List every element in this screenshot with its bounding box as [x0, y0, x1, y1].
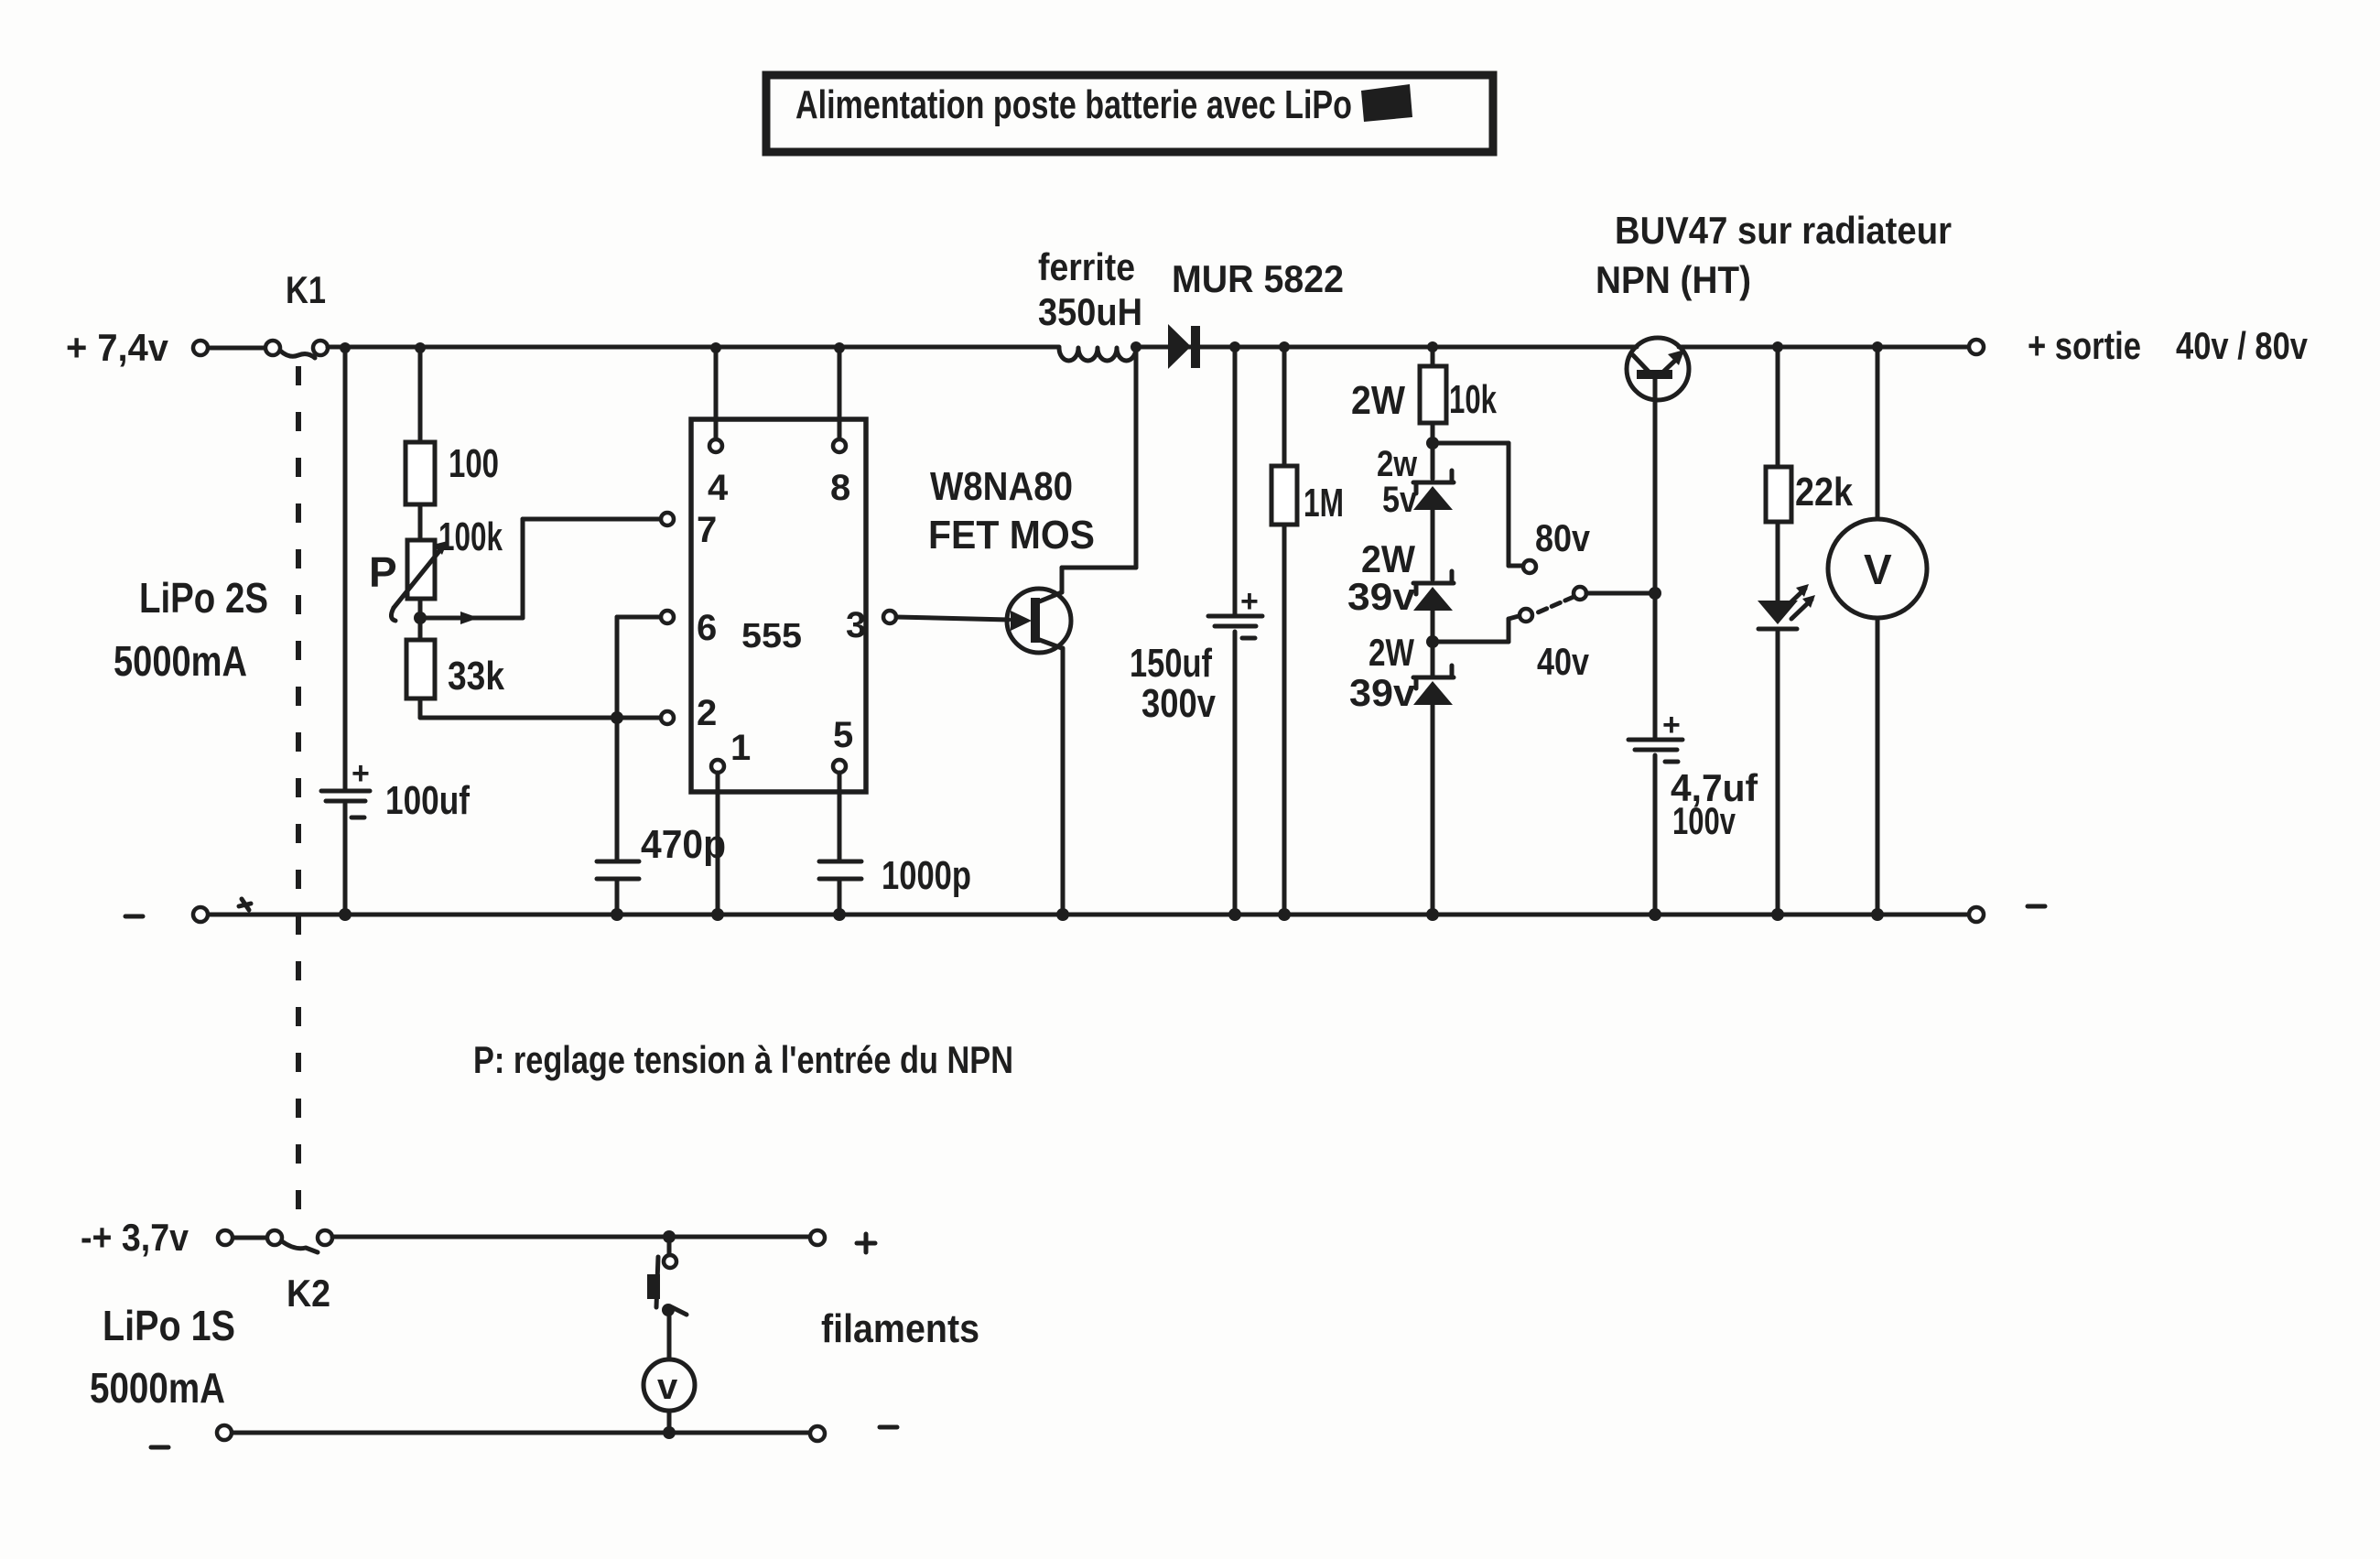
wire [418, 504, 423, 540]
wire source to ground rail [1056, 648, 1069, 921]
svg-text:K1: K1 [286, 268, 326, 311]
svg-text:BUV47 sur radiateur: BUV47 sur radiateur [1615, 209, 1952, 252]
pin 2 [661, 693, 717, 733]
capacitor 1000p [819, 853, 971, 921]
svg-text:40v: 40v [1537, 640, 1590, 683]
pin 5 [833, 715, 853, 861]
svg-text:Alimentation poste batterie av: Alimentation poste batterie avec LiPo [795, 82, 1352, 127]
svg-text:NPN (HT): NPN (HT) [1596, 258, 1751, 301]
wire pot to 33k with wiper tap [414, 519, 660, 640]
capacitor 100uf [321, 756, 470, 823]
wire filament - line [217, 1425, 825, 1441]
resistor 100 [406, 342, 499, 504]
wire [233, 1236, 267, 1240]
svg-text:40v / 80v: 40v / 80v [2176, 324, 2309, 367]
svg-text:39v: 39v [1349, 671, 1416, 714]
svg-text:K2: K2 [287, 1272, 330, 1315]
svg-text:22k: 22k [1795, 470, 1853, 514]
terminal +7.4v [193, 341, 208, 355]
svg-text:100: 100 [449, 441, 499, 486]
wire left vertical rail [340, 342, 351, 915]
capacitor 4,7uf 100v [1628, 593, 1758, 921]
svg-text:1M: 1M [1304, 481, 1344, 525]
svg-text:LiPo 2S: LiPo 2S [139, 574, 268, 622]
svg-text:470p: 470p [641, 822, 726, 867]
diode Z2 zener 39v 2W [1347, 537, 1454, 677]
diode Z3 zener 39v 2W [1349, 631, 1454, 921]
svg-text:P: reglage tension à l'entré: P: reglage tension à l'entrée du NPN [473, 1038, 1013, 1081]
svg-text:10k: 10k [1449, 377, 1497, 422]
transistor Q2 BUV47 NPN [1596, 209, 1952, 593]
svg-text:filaments: filaments [821, 1306, 979, 1351]
svg-text:MUR 5822: MUR 5822 [1172, 257, 1344, 300]
svg-text:1000p: 1000p [882, 853, 971, 898]
svg-text:-+ 3,7v: -+ 3,7v [81, 1216, 189, 1259]
svg-text:100k: 100k [438, 514, 503, 559]
wire pin3 to gate [896, 617, 1009, 620]
switch fuse on filament line [647, 1243, 687, 1359]
wire filament + line [332, 1230, 825, 1245]
resistor 22k [1766, 341, 1853, 601]
pin 1 [711, 728, 751, 921]
wire [209, 346, 265, 351]
svg-text:ferrite: ferrite [1038, 245, 1135, 288]
pin 6 [661, 608, 717, 648]
voltmeter V [1828, 341, 1927, 921]
title box [766, 75, 1493, 152]
capacitor 150uf 300v [1130, 341, 1262, 921]
switch K1 [265, 268, 328, 358]
svg-text:555: 555 [741, 617, 802, 655]
svg-text:7: 7 [697, 510, 717, 550]
svg-text:80v: 80v [1535, 516, 1591, 559]
svg-text:5: 5 [833, 715, 853, 755]
svg-text:+ 7,4v: + 7,4v [66, 326, 169, 369]
wire top rail left of ferrite [328, 345, 1059, 350]
svg-text:2: 2 [697, 693, 717, 733]
pin 7 [661, 510, 717, 550]
svg-text:+ sortie: + sortie [2028, 324, 2141, 367]
wire bottom ground rail [193, 907, 1984, 922]
diode D1 MUR 5822 [1168, 257, 1344, 369]
wire top rail ferrite to transistor [1136, 345, 1637, 350]
diode Z1 zener 5v 2w [1377, 444, 1454, 579]
svg-text:P: P [369, 548, 397, 596]
svg-text:+: + [1662, 708, 1681, 742]
resistor 1M [1271, 341, 1344, 921]
svg-text:100uf: 100uf [385, 778, 470, 823]
switch K2 [267, 1230, 332, 1315]
pin 3 [846, 605, 896, 645]
wire top rail transistor to output [1679, 345, 1969, 350]
svg-text:3: 3 [846, 605, 866, 645]
svg-text:FET MOS: FET MOS [928, 513, 1095, 558]
svg-text:2W: 2W [1361, 537, 1415, 580]
svg-text:2W: 2W [1368, 631, 1414, 674]
node plus label filaments [857, 1234, 875, 1252]
LED D2 [1758, 584, 1815, 921]
svg-text:5v: 5v [1382, 480, 1418, 520]
node 80v tap wire [1426, 437, 1591, 573]
svg-text:150uf: 150uf [1130, 641, 1212, 686]
svg-text:1: 1 [730, 728, 751, 768]
svg-text:4: 4 [708, 468, 729, 508]
node speck [239, 899, 251, 910]
svg-text:+: + [352, 756, 370, 791]
node minus labels filaments [151, 1427, 897, 1447]
svg-text:v: v [657, 1367, 678, 1407]
svg-text:5000mA: 5000mA [114, 637, 247, 685]
svg-text:33k: 33k [448, 654, 504, 698]
svg-text:350uH: 350uH [1038, 290, 1142, 333]
resistor 10k 2W [1351, 341, 1497, 479]
svg-text:+: + [1240, 584, 1259, 619]
node 40v tap wire [1426, 609, 1590, 683]
pin 4 [708, 342, 729, 508]
svg-text:5000mA: 5000mA [90, 1364, 225, 1412]
svg-text:LiPo 1S: LiPo 1S [103, 1302, 235, 1349]
svg-text:8: 8 [830, 468, 850, 508]
wire pin6 jog [617, 617, 660, 861]
svg-text:W8NA80: W8NA80 [930, 464, 1073, 509]
svg-text:300v: 300v [1141, 681, 1216, 726]
svg-text:100v: 100v [1672, 799, 1736, 842]
svg-text:V: V [1864, 546, 1892, 593]
switch 40v/80v selector [1538, 587, 1661, 612]
svg-text:39v: 39v [1347, 575, 1416, 618]
wire 33k to pin2 [420, 698, 660, 724]
capacitor 470p [597, 822, 726, 921]
terminal +3.7v [218, 1230, 233, 1245]
potentiometer P 100k [369, 514, 503, 621]
wire drain to rail [1062, 341, 1141, 592]
voltmeter V filaments [644, 1359, 695, 1433]
resistor 33k [406, 640, 504, 698]
terminal + sortie [1969, 324, 2309, 367]
transistor Q1 W8NA80 FET MOS [928, 464, 1095, 653]
svg-text:2w: 2w [1377, 444, 1418, 484]
svg-text:2W: 2W [1351, 378, 1405, 423]
inductor L1 ferrite 350uH [1038, 245, 1142, 361]
op-amp U1 555 timer IC [691, 419, 866, 792]
pin 8 [830, 342, 850, 508]
battery separation dashed line [296, 366, 301, 1218]
svg-text:6: 6 [697, 608, 717, 648]
node minus labels of main rail [125, 906, 2045, 916]
